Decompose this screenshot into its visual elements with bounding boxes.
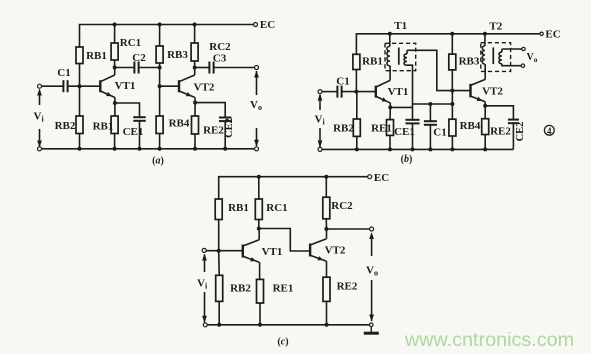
wire RE1 top	[114, 103, 116, 116]
transformer T2 shield dashed box	[481, 43, 511, 72]
svg-text:RB2: RB2	[55, 120, 76, 132]
bottom rail wire of circuit c	[207, 324, 369, 326]
output terminal bottom of circuit b	[521, 64, 524, 67]
svg-text:RC2: RC2	[209, 41, 231, 53]
svg-text:RE1: RE1	[371, 123, 392, 135]
power terminal EC of circuit b	[540, 32, 543, 35]
wire VT2 collector to RC2 node	[194, 68, 196, 76]
svg-text:VT2: VT2	[325, 245, 346, 257]
resistor RC1 of circuit c	[255, 199, 262, 220]
input terminal top of circuit b	[318, 90, 322, 94]
svg-text:T2: T2	[489, 21, 502, 33]
wire base node to VT2	[160, 85, 179, 87]
svg-text:RE2: RE2	[203, 125, 224, 137]
svg-text:RB3: RB3	[459, 56, 480, 68]
wire C1 mid bottom	[429, 125, 431, 150]
resistor RC1 of circuit a	[111, 43, 118, 60]
wire collector node to C3	[195, 67, 210, 69]
capacitor C1 input of circuit b	[337, 86, 341, 98]
wire RC2 top	[325, 177, 327, 198]
transistor VT1 of circuit b	[376, 80, 390, 102]
svg-text:C1: C1	[57, 67, 70, 79]
svg-text:VT1: VT1	[388, 86, 409, 98]
wire T1 secondary top to VT2 base	[407, 50, 471, 90]
node on top rail above T2 primary	[483, 32, 487, 36]
node RB1 RB2 junction of circuit c	[217, 249, 221, 253]
wire CE2 bottom	[512, 123, 514, 149]
node T1 secondary top / RB3 bottom junction	[450, 89, 454, 93]
node RB2 bottom rail b	[355, 147, 359, 151]
svg-text:VT1: VT1	[115, 80, 136, 92]
transformer T1 shield dashed box	[385, 43, 416, 70]
capacitor C3 of circuit a	[209, 62, 213, 74]
resistor RE2 of circuit c	[323, 277, 330, 301]
wire C1 to base of VT1	[68, 85, 101, 87]
wire emitter node to CE1	[115, 103, 140, 117]
transformer T1 core line	[398, 48, 400, 65]
transformer T1 primary winding	[387, 34, 390, 66]
circuit c: top supply rail wire	[219, 177, 368, 199]
resistor RB1 of circuit c	[215, 199, 222, 220]
resistor RB2 of circuit a	[76, 116, 83, 134]
node RE2 bottom rail c	[325, 323, 329, 327]
node collector VT1 of circuit c	[257, 227, 261, 231]
wire RB4 bottom	[451, 136, 453, 149]
node RB4 bottom rail b	[450, 147, 454, 151]
svg-text:RB2: RB2	[333, 123, 354, 135]
resistor RC2 of circuit a	[191, 43, 198, 61]
wire RB3 top	[451, 34, 453, 54]
wire RB3 bottom to RB4	[451, 70, 453, 119]
resistor RB3 of circuit b	[449, 54, 456, 70]
node on top rail above RC2	[193, 23, 197, 27]
wire RE2 top	[484, 106, 486, 119]
resistor RE2 of circuit a	[192, 116, 199, 134]
wire VT2 collector up to T2 primary	[484, 64, 486, 79]
wire T2 secondary top to output terminal	[502, 48, 522, 50]
input terminal bottom of circuit c	[203, 323, 207, 327]
node emitter VT2 of circuit b	[483, 104, 487, 108]
input terminal top of circuit a	[38, 84, 42, 88]
wire VT1 collector to RC1 node	[258, 229, 260, 240]
svg-text:RE1: RE1	[273, 282, 294, 294]
wire RB3 top	[159, 25, 161, 47]
node RE1 bottom rail b	[388, 147, 392, 151]
svg-text:RB1: RB1	[93, 121, 114, 133]
wire C1 mid top lead	[429, 104, 431, 121]
wire RE2 top	[194, 103, 196, 116]
wire RC1 top	[114, 25, 116, 44]
wire RB4 top	[159, 86, 161, 116]
svg-text:RB2: RB2	[230, 282, 251, 294]
output terminal bottom of circuit a	[255, 147, 259, 151]
resistor RE2 of circuit b	[482, 119, 489, 135]
node RB4 bottom	[158, 147, 162, 151]
svg-text:RC2: RC2	[331, 200, 353, 212]
bottom rail wire of circuit a	[42, 148, 255, 150]
wire coupling VT1 collector to VT2 base	[259, 229, 310, 252]
node on top rail above RB3	[158, 23, 162, 27]
transistor VT2 of circuit a	[179, 75, 195, 97]
svg-text:C2: C2	[132, 52, 146, 64]
wire RB1 bottom	[218, 220, 220, 251]
svg-text:VT2: VT2	[194, 82, 215, 94]
wire VT1 collector up to T1 primary	[389, 66, 391, 81]
svg-text:(b): (b)	[401, 154, 413, 165]
svg-text:RE2: RE2	[490, 126, 511, 138]
power terminal EC of circuit c	[368, 175, 372, 179]
capacitor CE2 of circuit b	[508, 120, 519, 124]
svg-text:4: 4	[547, 126, 552, 136]
wire RE1 bottom	[259, 303, 261, 325]
voltage arrow Vo of circuit c	[369, 232, 374, 322]
svg-text:RB1: RB1	[362, 56, 383, 68]
wire RB1 bottom to base node	[79, 64, 81, 87]
wire RB3 bottom to C2 node	[159, 63, 161, 68]
wire VT2 emitter down	[484, 102, 486, 106]
node emitter VT2	[193, 101, 197, 105]
wire VT1 emitter down to emitter node	[114, 97, 116, 103]
wire RB2 to bottom rail	[79, 134, 81, 149]
svg-text:RB4: RB4	[169, 118, 190, 130]
wire RC1 top	[258, 177, 260, 199]
svg-text:C1: C1	[336, 76, 349, 88]
svg-text:www.cntronics.com: www.cntronics.com	[404, 329, 574, 351]
resistor RC2 of circuit c	[323, 197, 330, 219]
resistor RB1 of circuit a	[76, 47, 83, 64]
node RB2 bottom	[78, 147, 82, 151]
wire CE2 to bottom rail	[224, 121, 226, 149]
node on top rail above RC1	[113, 23, 117, 27]
node C1 mid top	[428, 102, 432, 106]
wire C2 to RB3 node	[139, 67, 160, 69]
node on top rail above T1 primary	[388, 32, 392, 36]
wire VT1 collector to RC1 node	[114, 68, 116, 76]
resistor RB1 of circuit b	[353, 54, 360, 69]
node collector VT1 / C2	[113, 66, 117, 70]
node RE1 bottom	[113, 147, 117, 151]
wire RB2 top	[218, 251, 221, 276]
resistor RB4 of circuit b	[449, 119, 456, 136]
svg-text:RE2: RE2	[337, 281, 358, 293]
wire CE1 bottom	[412, 123, 414, 149]
output terminal top of circuit a	[255, 66, 259, 70]
voltage arrow Vi of circuit b	[318, 94, 323, 148]
capacitor C2 of circuit a	[134, 62, 138, 74]
wire input to C1	[322, 91, 337, 93]
svg-text:C3: C3	[213, 53, 227, 65]
power terminal EC of circuit a	[254, 23, 258, 27]
node RE2 bottom	[193, 147, 197, 151]
circuit a: top supply rail wire	[80, 25, 256, 48]
wire RC2 bottom	[325, 219, 327, 229]
resistor RB2 of circuit c	[216, 275, 223, 301]
wire C3 to output terminal	[214, 67, 255, 69]
wire CE1 to bottom rail	[139, 121, 141, 149]
svg-text:(c): (c)	[277, 337, 288, 348]
svg-text:RB3: RB3	[167, 49, 188, 61]
svg-text:EC: EC	[260, 19, 275, 31]
resistor RE1 of circuit c	[257, 279, 264, 303]
transformer T2 primary winding	[482, 34, 485, 64]
capacitor C1 of circuit a	[63, 80, 67, 92]
wire input to base of VT1	[206, 250, 243, 252]
wire RC1 bottom	[258, 220, 260, 229]
wire emitter node to CE2	[195, 103, 225, 118]
wire VT2 emitter down	[326, 261, 328, 277]
node emitter VT1	[113, 101, 117, 105]
node RB3 C2 junction	[158, 66, 162, 70]
node CE1 bottom rail b	[411, 147, 415, 151]
svg-text:EC: EC	[374, 172, 389, 184]
resistor RB3 of circuit a	[156, 46, 163, 63]
wire branch to C1 mid and RB4	[413, 103, 453, 105]
wire RB1 bottom	[355, 70, 357, 92]
resistor RE1 of circuit b	[387, 120, 394, 136]
wire emitter node to CE2	[485, 106, 513, 120]
transformer T1 secondary winding	[404, 50, 407, 65]
wire RB2 top	[356, 92, 358, 119]
svg-text:RB1: RB1	[228, 202, 249, 214]
node emitter VT1 of circuit b	[388, 105, 392, 109]
wire T1 secondary bottom down	[407, 65, 413, 120]
wire RE1 top	[389, 107, 391, 119]
wire RC2 top	[194, 25, 196, 44]
capacitor CE2 of circuit a	[219, 118, 232, 122]
svg-text:VT1: VT1	[262, 246, 283, 258]
node on top rail above RC1	[257, 175, 261, 179]
node base of VT2	[158, 84, 162, 88]
wire RC1 bottom	[114, 60, 116, 68]
wire VT1 emitter down	[259, 262, 261, 279]
svg-text:C1: C1	[433, 127, 446, 139]
transformer T2 secondary winding	[499, 49, 502, 64]
wire VT1 emitter down	[389, 103, 391, 108]
input terminal bottom of circuit b	[318, 147, 322, 151]
svg-text:RC1: RC1	[266, 202, 287, 214]
circuit b: top supply rail wire	[356, 34, 540, 55]
node RB1 bottom junction	[354, 90, 358, 94]
node RB4 branch junction	[450, 102, 454, 106]
wire RC2 bottom	[194, 61, 196, 68]
output terminal top of circuit b	[522, 47, 525, 50]
node RE1 bottom rail c	[258, 323, 262, 327]
transistor VT1 of circuit c	[243, 240, 259, 262]
svg-text:RC1: RC1	[120, 37, 141, 49]
node RB2 bottom rail c	[217, 323, 221, 327]
transistor VT2 of circuit c	[310, 239, 326, 261]
wire down to base node of VT2	[159, 68, 161, 87]
voltage arrow Vi of circuit a	[37, 89, 42, 148]
capacitor C1 mid of circuit b	[424, 121, 437, 125]
wire VT2 collector to RC2 node	[326, 229, 328, 239]
node collector VT2 of circuit c	[324, 227, 328, 231]
node CE1 bottom	[138, 147, 142, 151]
label circled figure number 4	[544, 125, 554, 135]
wire emitter node to CE1 vertical	[390, 106, 412, 108]
wire RE1 bottom	[389, 135, 391, 149]
svg-text:RB1: RB1	[86, 50, 107, 62]
capacitor CE1 of circuit a	[133, 117, 146, 121]
node collector VT2 / C3	[193, 66, 197, 70]
svg-text:VT2: VT2	[482, 86, 503, 98]
node C1 mid bottom rail b	[428, 147, 432, 151]
wire T2 secondary bottom to output terminal	[502, 64, 521, 66]
voltage arrow Vi of circuit c	[202, 254, 207, 323]
wire RB4 bottom	[159, 134, 161, 149]
wire RB2 bottom	[218, 301, 220, 324]
wire VT2 emitter down	[194, 97, 196, 102]
voltage arrow Vo of circuit a	[254, 71, 259, 147]
wire RE2 bottom	[484, 135, 486, 150]
input terminal of circuit c	[202, 248, 206, 252]
wire RE1 bottom	[114, 134, 116, 149]
capacitor CE1 of circuit b	[406, 120, 420, 124]
resistor RB4 of circuit a	[156, 116, 163, 134]
wire input to C1	[42, 85, 64, 87]
node CE2 bottom	[223, 147, 227, 151]
wire RB2 leads	[79, 86, 81, 116]
svg-text:RB4: RB4	[460, 120, 481, 132]
transistor VT2 of circuit b	[471, 79, 486, 101]
node joining RB1 RB2 and input wire	[78, 84, 82, 88]
ground junction terminal of circuit c	[369, 323, 373, 327]
svg-text:CE2: CE2	[515, 122, 526, 142]
wire collector node to C2	[115, 67, 135, 69]
resistor RE1 of circuit a	[111, 116, 118, 134]
node on top rail above RB3	[450, 32, 454, 36]
input terminal bottom of circuit a	[38, 147, 42, 151]
transistor VT1 of circuit a	[100, 75, 114, 97]
wire RB2 bottom	[356, 136, 358, 149]
bottom rail wire of circuit b	[322, 148, 513, 150]
resistor RB2 of circuit b	[353, 119, 360, 136]
wire collector to output terminal	[327, 228, 370, 230]
svg-text:EC: EC	[545, 29, 560, 41]
node RE2 bottom rail b	[483, 147, 487, 151]
ground symbol of circuit c	[364, 327, 379, 333]
node on top rail above RC2	[324, 175, 328, 179]
svg-text:(a): (a)	[152, 156, 164, 167]
transformer T2 core line	[492, 47, 494, 64]
wire RE2 bottom	[194, 134, 196, 149]
wire RE2 bottom	[326, 301, 328, 324]
wire C1 to base of VT1	[342, 91, 376, 93]
output terminal of circuit c	[370, 227, 374, 231]
svg-text:T1: T1	[394, 20, 407, 32]
